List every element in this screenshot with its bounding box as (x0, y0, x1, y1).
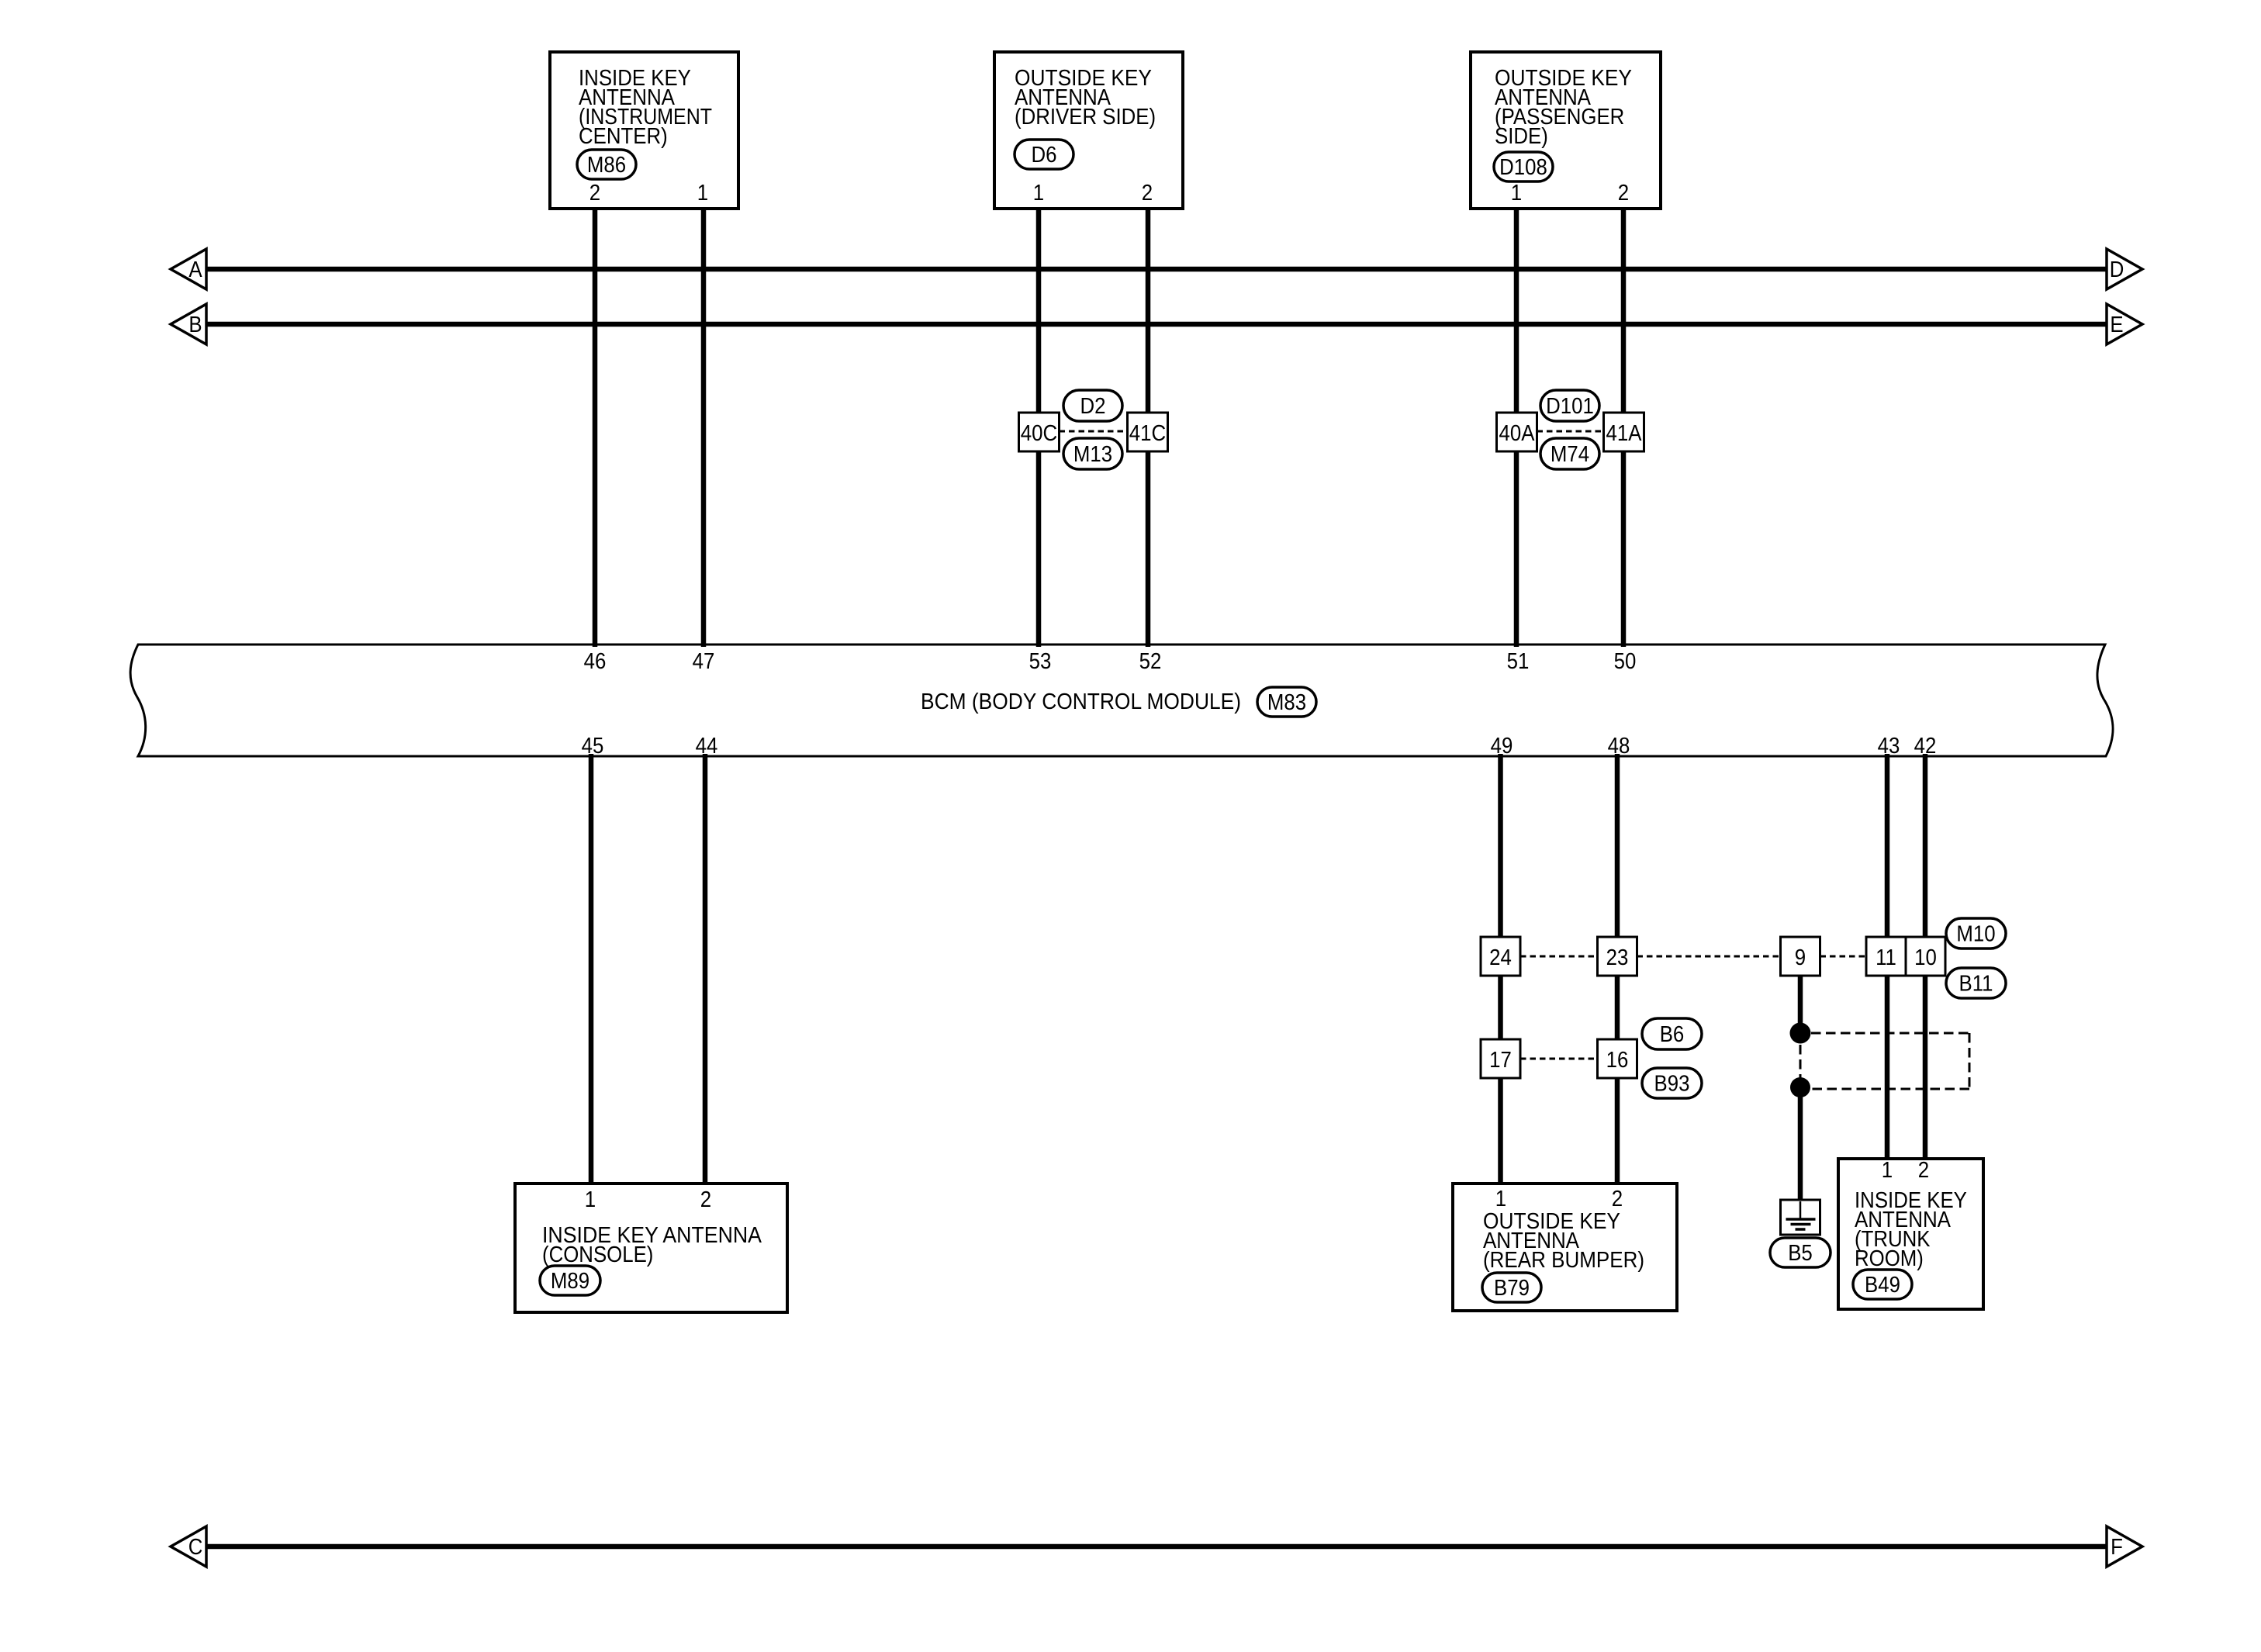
svg-text:D2: D2 (1080, 394, 1106, 419)
wire dashed link 9-11 (1820, 956, 1867, 958)
svg-text:53: 53 (1029, 649, 1052, 674)
wire BCM pin45 to console pin1 (589, 754, 594, 1186)
connector square 23 (1598, 937, 1637, 976)
wire BCM pin44 to console pin2 (703, 754, 708, 1186)
wire bus C-F (206, 1544, 2107, 1550)
svg-text:1: 1 (1511, 181, 1522, 206)
wire D6 pin2 to BCM pin52 (1146, 207, 1151, 647)
connector oval B93 (1642, 1068, 1702, 1098)
svg-text:2: 2 (1918, 1158, 1929, 1183)
svg-text:ROOM): ROOM) (1855, 1246, 1924, 1271)
ground connector oval B5 (1770, 1238, 1831, 1267)
box B49 inside key antenna (trunk room) (1838, 1158, 1983, 1309)
svg-text:2: 2 (1612, 1187, 1623, 1211)
wire M86 pin1 to BCM pin47 (701, 207, 707, 647)
wire dashed link 23-9 (1637, 956, 1781, 958)
svg-text:46: 46 (584, 649, 607, 674)
box M89 inside key antenna (console) (515, 1184, 787, 1312)
wire dashed link 40A-41A (1537, 430, 1604, 433)
node B bus arrow (left) (171, 304, 206, 344)
wire dashed shield top (1811, 1032, 1969, 1035)
svg-text:B5: B5 (1788, 1241, 1813, 1266)
wire BCM pin43 to B49 pin1 (1885, 754, 1890, 1161)
connector oval M10 (1946, 918, 2006, 949)
svg-text:10: 10 (1914, 945, 1937, 970)
connector square 24 (1481, 937, 1520, 976)
box M86 inside key antenna (instrument center) (550, 52, 738, 209)
connector square 10 (1906, 937, 1945, 976)
svg-text:1: 1 (1495, 1187, 1506, 1211)
wire dashed link 40C-41C (1060, 430, 1128, 433)
svg-text:(REAR BUMPER): (REAR BUMPER) (1483, 1248, 1644, 1273)
connector square 40C (1019, 413, 1060, 451)
svg-text:1: 1 (585, 1187, 596, 1212)
wire M86 pin2 to BCM pin46 (593, 207, 598, 647)
svg-text:(DRIVER SIDE): (DRIVER SIDE) (1015, 105, 1156, 130)
box B79 outside key antenna (rear bumper) (1453, 1184, 1677, 1311)
connector oval D2 (1063, 390, 1122, 421)
svg-text:24: 24 (1489, 945, 1512, 970)
connector square 11 (1866, 937, 1906, 976)
svg-text:M83: M83 (1267, 690, 1306, 715)
svg-text:B11: B11 (1959, 972, 1993, 997)
svg-text:B6: B6 (1660, 1022, 1685, 1047)
ground symbol (1781, 1200, 1820, 1235)
svg-text:51: 51 (1507, 649, 1530, 674)
svg-text:B49: B49 (1865, 1273, 1900, 1298)
connector oval M13 (1063, 438, 1122, 469)
box D6 outside key antenna (driver side) (994, 52, 1183, 209)
wire BCM pin49 to B79 pin1 (1498, 754, 1503, 1186)
svg-text:E: E (2110, 313, 2123, 337)
svg-text:C: C (188, 1535, 203, 1560)
svg-text:A: A (188, 257, 202, 282)
svg-text:1: 1 (1882, 1158, 1893, 1183)
wire BCM pin48 to B79 pin2 (1615, 754, 1620, 1186)
connector square 9 (1781, 937, 1820, 976)
svg-text:17: 17 (1489, 1048, 1512, 1073)
wire D108 pin2 to BCM pin50 (1621, 207, 1627, 647)
svg-text:B93: B93 (1654, 1072, 1690, 1097)
svg-text:(CONSOLE): (CONSOLE) (542, 1242, 653, 1267)
svg-text:D6: D6 (1032, 143, 1057, 168)
box D108 outside key antenna (passenger side) (1471, 52, 1661, 209)
node E bus arrow (right) (2107, 304, 2142, 344)
svg-text:41A: 41A (1606, 421, 1642, 446)
svg-text:40A: 40A (1499, 421, 1535, 446)
svg-text:2: 2 (1618, 181, 1629, 206)
svg-text:D108: D108 (1499, 155, 1547, 180)
svg-text:41C: 41C (1129, 421, 1166, 446)
wire D6 pin1 to BCM pin53 (1036, 207, 1042, 647)
svg-text:47: 47 (693, 649, 715, 674)
svg-text:M74: M74 (1551, 442, 1589, 467)
svg-text:B79: B79 (1494, 1276, 1530, 1301)
svg-text:40C: 40C (1021, 421, 1057, 446)
svg-text:2: 2 (700, 1187, 711, 1212)
wire bus A-D (206, 267, 2107, 272)
svg-text:52: 52 (1139, 649, 1162, 674)
connector square 16 (1598, 1039, 1637, 1078)
connector square 41A (1604, 413, 1644, 451)
svg-text:16: 16 (1606, 1048, 1629, 1073)
svg-text:23: 23 (1606, 945, 1629, 970)
wire dashed link 17-16 (1520, 1058, 1598, 1060)
svg-text:11: 11 (1876, 945, 1896, 970)
svg-text:1: 1 (1033, 181, 1044, 206)
svg-text:M89: M89 (551, 1269, 589, 1294)
wire bus B-E (206, 322, 2107, 327)
connector oval D101 (1540, 390, 1599, 421)
svg-text:BCM (BODY CONTROL MODULE): BCM (BODY CONTROL MODULE) (921, 689, 1241, 714)
connector oval B11 (1946, 968, 2006, 998)
svg-text:M86: M86 (587, 153, 626, 178)
svg-text:CENTER): CENTER) (579, 124, 668, 149)
svg-text:F: F (2111, 1535, 2123, 1560)
wire connector 9 to junction (1798, 976, 1803, 1032)
junction node (upper) (1790, 1023, 1811, 1044)
svg-text:50: 50 (1614, 649, 1637, 674)
svg-text:9: 9 (1795, 945, 1806, 970)
svg-text:SIDE): SIDE) (1495, 124, 1548, 149)
svg-text:2: 2 (1142, 181, 1153, 206)
wire dashed link 24-23 (1520, 956, 1598, 958)
svg-text:B: B (188, 313, 202, 337)
node C bus arrow (left) (171, 1526, 206, 1567)
connector oval M74 (1540, 438, 1599, 469)
connector square 17 (1481, 1039, 1520, 1078)
wire dashed shield bottom (1811, 1088, 1969, 1090)
svg-text:D: D (2110, 257, 2124, 282)
wire dashed shield right (1969, 1033, 1971, 1089)
svg-text:D101: D101 (1546, 394, 1594, 419)
svg-text:2: 2 (589, 181, 600, 206)
node D bus arrow (right) (2107, 249, 2142, 289)
svg-text:1: 1 (697, 181, 708, 206)
wire dashed between junctions (1799, 1045, 1802, 1079)
wire junction to ground (1798, 1087, 1803, 1202)
node F bus arrow (right) (2107, 1526, 2142, 1567)
svg-text:M13: M13 (1073, 442, 1112, 467)
wire BCM pin42 to B49 pin2 (1923, 754, 1928, 1161)
connector square 41C (1128, 413, 1168, 451)
wire D108 pin1 to BCM pin51 (1514, 207, 1519, 647)
BCM (Body Control Module) band (130, 645, 2113, 756)
BCM connector oval M83 (1257, 687, 1316, 717)
connector square 40A (1497, 413, 1537, 451)
connector oval B6 (1642, 1018, 1702, 1049)
node A bus arrow (left) (171, 249, 206, 289)
svg-text:M10: M10 (1956, 922, 1995, 947)
junction node (lower) (1790, 1077, 1810, 1097)
